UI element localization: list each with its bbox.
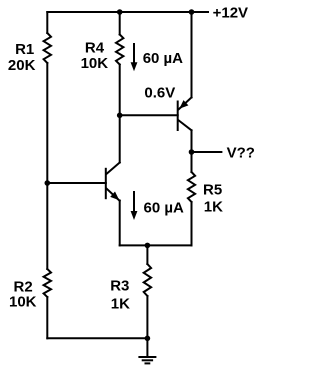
svg-text:0.6V: 0.6V [144, 85, 175, 102]
svg-text:60 µA: 60 µA [143, 50, 183, 67]
svg-text:+12V: +12V [213, 5, 248, 22]
svg-text:1K: 1K [204, 198, 223, 215]
svg-text:10K: 10K [81, 55, 109, 72]
svg-text:10K: 10K [9, 293, 37, 310]
svg-text:R1: R1 [15, 41, 34, 58]
svg-text:R3: R3 [110, 278, 129, 295]
svg-text:60 µA: 60 µA [144, 200, 184, 217]
svg-text:20K: 20K [8, 57, 36, 74]
svg-text:R4: R4 [85, 39, 105, 56]
svg-text:R5: R5 [203, 181, 222, 198]
svg-text:1K: 1K [111, 296, 130, 313]
svg-text:V??: V?? [227, 145, 255, 162]
